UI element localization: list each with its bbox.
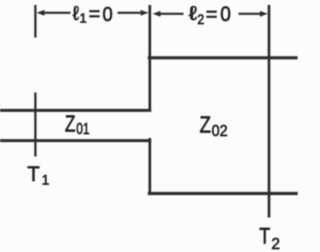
svg-text:1: 1 (42, 172, 50, 187)
svg-text:=: = (89, 4, 101, 26)
svg-text:0: 0 (103, 4, 113, 26)
svg-text:Z: Z (65, 110, 76, 136)
svg-text:1: 1 (80, 10, 87, 25)
svg-text:01: 01 (76, 121, 89, 138)
svg-text:2: 2 (271, 236, 280, 252)
svg-text:ℓ: ℓ (73, 3, 80, 25)
svg-text:ℓ: ℓ (189, 3, 198, 25)
svg-text:2: 2 (197, 12, 204, 27)
svg-text:T: T (259, 224, 270, 249)
svg-text:02: 02 (212, 123, 228, 140)
svg-text:=: = (206, 4, 218, 26)
svg-text:0: 0 (220, 3, 231, 26)
svg-text:Z: Z (200, 111, 212, 137)
svg-text:T: T (27, 163, 40, 186)
